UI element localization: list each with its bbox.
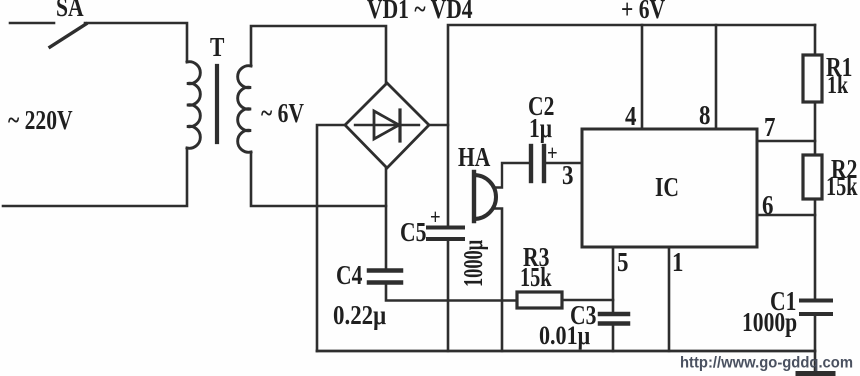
svg-text:http://www.go-gddq.com: http://www.go-gddq.com [680,355,853,372]
svg-text:SA: SA [56,0,84,23]
svg-text:+: + [430,206,441,230]
wire top rail right corner down to R1 [814,25,817,55]
wire secondary bottom to node under bridge [251,152,386,206]
buzzer HA symbol [474,172,496,221]
wire C3 bottom to ground rail [612,326,615,352]
resistor R2 box [803,155,822,199]
svg-text:T: T [210,33,224,63]
svg-text:8: 8 [699,101,710,130]
bridge rectifier VD1~VD4 diamond [345,83,429,168]
switch SA blade [50,24,86,47]
wire IC pin 1 to ground rail [668,247,671,351]
wire C1 bottom to ground symbol [814,316,817,372]
capacitor C4 plates [369,271,401,283]
wire C4 bottom to R3 left [386,285,517,301]
transformer T core [215,66,219,142]
wire +6V riser and top rail [448,25,815,225]
svg-text:IC: IC [655,173,679,203]
svg-text:1000p: 1000p [742,308,797,338]
svg-text:~ 6V: ~ 6V [261,99,304,129]
wire IC pin 4 to +6V rail [641,25,644,129]
wire switch to transformer primary top [85,23,187,62]
svg-text:C4: C4 [336,261,362,291]
svg-text:4: 4 [625,102,637,131]
wire R1 bottom to R2 top [814,102,817,155]
resistor R1 box [803,55,822,102]
svg-text:15k: 15k [826,172,858,201]
svg-text:+ 6V: + 6V [621,0,665,25]
svg-text:1k: 1k [827,71,848,99]
wire IC pin 5 down to R3/C3 node [612,247,615,312]
svg-text:+: + [547,142,558,166]
wire mains top-left stub [10,22,54,25]
svg-text:0.01μ: 0.01μ [539,322,590,350]
wire C2 to IC pin 3 [546,162,582,165]
capacitor C5 plates [428,228,463,240]
wire IC pin 6 to R2/C1 node [757,214,815,217]
wire IC pin 7 to R1/R2 node [757,140,815,143]
wire HA bottom terminal to ground rail [495,209,502,352]
wire secondary top to bridge top vertex [251,26,386,84]
IC U1 box [582,129,757,247]
wire bridge right vertex to +6V riser [429,124,448,127]
transformer T secondary winding [238,66,251,153]
wire HA top terminal to C2 [495,163,529,188]
wire R3 right to pin5 node [562,299,613,302]
ground symbol bar [798,371,833,376]
svg-text:~ 220V: ~ 220V [8,106,73,136]
svg-text:5: 5 [617,248,628,277]
svg-text:1000μ: 1000μ [457,240,487,287]
svg-text:C5: C5 [400,218,426,248]
wire IC pin 8 to +6V rail [715,25,718,129]
capacitor C1 plates [801,301,831,315]
svg-text:15k: 15k [520,263,552,292]
wire bridge left vertex down to ground rail [317,125,345,351]
svg-text:6: 6 [762,191,773,220]
wire C5 bottom to ground rail [447,241,450,351]
transformer T primary winding [187,62,200,149]
svg-text:1μ: 1μ [529,114,552,144]
svg-text:1: 1 [672,248,683,277]
capacitor C2 plates [531,146,544,181]
capacitor C3 plates [600,314,628,324]
bridge inner diode symbol [355,110,419,141]
svg-text:HA: HA [458,143,491,173]
wire bridge bottom vertex down through node to C4 [385,168,388,268]
svg-text:0.22μ: 0.22μ [333,301,386,330]
resistor R3 box [517,292,562,308]
wire R2 bottom to C1 top [814,199,817,298]
svg-text:VD1 ~ VD4: VD1 ~ VD4 [367,0,473,25]
ground rail bottom [317,350,815,353]
svg-text:3: 3 [562,161,573,190]
wire primary bottom to mains return [3,148,187,206]
svg-text:7: 7 [764,113,775,142]
